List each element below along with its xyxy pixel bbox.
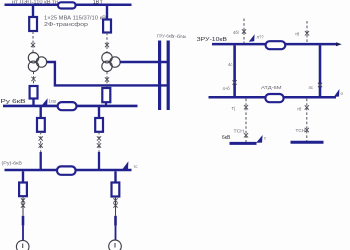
svg-text:нт ЛЭП-110 кВ тн: нт ЛЭП-110 кВ тн: [12, 0, 58, 5]
svg-text:ЗРУ-10кВ: ЗРУ-10кВ: [197, 37, 228, 43]
svg-text:тб: тб: [297, 106, 302, 111]
svg-text:ТСН: ТСН: [234, 129, 245, 134]
svg-text:Ру 6кВ: Ру 6кВ: [1, 99, 27, 105]
svg-text:с: с: [264, 135, 266, 140]
svg-text:6кВ: 6кВ: [222, 135, 231, 141]
svg-text:л??: л??: [257, 34, 265, 39]
svg-text:о: о: [341, 91, 344, 96]
svg-text:1×25 МВА 115/37/10 кВ: 1×25 МВА 115/37/10 кВ: [44, 15, 107, 21]
svg-text:тб: тб: [295, 32, 300, 37]
svg-text:тс: тс: [134, 164, 138, 169]
svg-text:АТД-6М: АТД-6М: [261, 85, 282, 90]
svg-text:2Ф-трансфор: 2Ф-трансфор: [44, 22, 88, 28]
svg-text:4с: 4с: [228, 62, 232, 67]
svg-text:1В: 1В: [93, 0, 100, 5]
svg-text:ГРУ-6кВ: ГРУ-6кВ: [157, 34, 174, 39]
svg-text:4с: 4с: [309, 85, 313, 90]
svg-text:Т|: Т|: [232, 106, 236, 111]
svg-text:т-б№: т-б№: [173, 34, 187, 39]
svg-text:4+б: 4+б: [223, 86, 231, 91]
svg-text:(Ру)-6кВ: (Ру)-6кВ: [2, 160, 23, 165]
svg-text:ТСН: ТСН: [296, 128, 306, 133]
svg-text:4б!: 4б!: [233, 30, 239, 35]
svg-text:1сш: 1сш: [49, 99, 57, 104]
